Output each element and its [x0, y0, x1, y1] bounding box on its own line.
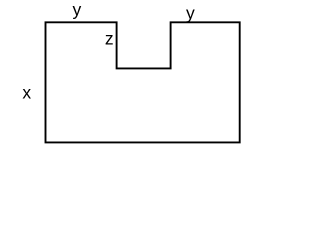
- svg-text:y: y: [186, 3, 195, 23]
- svg-text:x: x: [22, 83, 31, 103]
- svg-text:y: y: [73, 0, 82, 20]
- composite rectangle with notch diagram: [0, 0, 269, 154]
- shape outline: rectangle with top notch: [46, 22, 240, 142]
- svg-text:z: z: [105, 29, 114, 49]
